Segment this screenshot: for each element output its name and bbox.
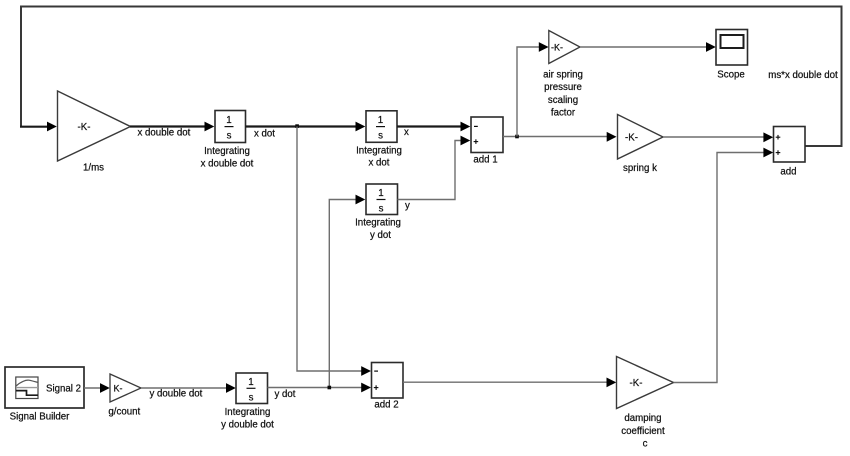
- wire y: integrator3 up to add 1 plus input: [398, 141, 462, 200]
- svg-text:add 1: add 1: [473, 155, 497, 166]
- svg-text:y: y: [405, 201, 410, 212]
- svg-text:Scope: Scope: [717, 70, 744, 81]
- svg-text:damping: damping: [624, 413, 661, 424]
- svg-text:add: add: [780, 167, 796, 178]
- wire Signal Builder to g/count: [84, 387, 101, 389]
- svg-text:factor: factor: [551, 108, 576, 119]
- svg-text:-K-: -K-: [625, 132, 638, 143]
- integrator Integrating y dot: [355, 184, 401, 241]
- svg-text:-K-: -K-: [630, 378, 643, 389]
- wire x: integrator2 to add 1 minus input: [397, 125, 461, 127]
- svg-text:ms*x double dot: ms*x double dot: [768, 70, 838, 81]
- integrator Integrating y double dot: [221, 373, 274, 431]
- svg-text:-K-: -K-: [551, 42, 563, 52]
- sum add: [774, 127, 806, 178]
- svg-text:Integrating: Integrating: [204, 146, 250, 157]
- svg-text:air spring: air spring: [543, 70, 583, 81]
- svg-text:y double dot: y double dot: [150, 388, 203, 399]
- gain g/count: [108, 374, 141, 418]
- wire feedback loop from add output to 1/ms input: [21, 7, 842, 147]
- svg-text:c: c: [643, 439, 648, 450]
- wire y dot: integrator to add 2 plus input: [268, 387, 363, 389]
- svg-text:Integrating: Integrating: [355, 218, 401, 229]
- scope Scope: [716, 30, 748, 81]
- svg-text:add 2: add 2: [374, 400, 398, 411]
- sum add 1: [471, 117, 503, 166]
- svg-text:x double dot: x double dot: [138, 128, 191, 139]
- svg-text:Signal 2: Signal 2: [46, 383, 81, 394]
- svg-text:1: 1: [248, 377, 253, 388]
- wire x dot branch down to add 2 minus input: [297, 127, 362, 372]
- svg-text:s: s: [378, 131, 383, 142]
- wire y double dot: g/count to Integrating y double dot: [141, 387, 227, 389]
- svg-text:x: x: [404, 127, 409, 138]
- gain 1/ms: [58, 91, 131, 174]
- arrowhead into 1/ms: [47, 122, 57, 132]
- svg-text:y dot: y dot: [275, 389, 296, 400]
- junction to air spring branch: [515, 135, 519, 139]
- svg-text:scaling: scaling: [548, 95, 578, 106]
- integrator Integrating x double dot: [201, 111, 254, 170]
- wire air spring gain to Scope: [580, 46, 707, 48]
- svg-text:Signal Builder: Signal Builder: [10, 411, 71, 422]
- svg-text:Integrating: Integrating: [225, 407, 271, 418]
- gain spring k: [618, 115, 664, 174]
- wire x double dot: 1/ms to Integrating x double dot: [130, 125, 205, 127]
- wire spring k to add input 1: [663, 136, 764, 138]
- gain air spring pressure scaling factor: [543, 31, 583, 119]
- svg-text:1/ms: 1/ms: [83, 163, 104, 174]
- wire y dot branch up into Integrating y dot: [329, 200, 356, 388]
- sum add 2: [372, 363, 404, 411]
- signal builder Signal Builder: [5, 367, 84, 422]
- wire feedback stub into 1/ms: [20, 126, 48, 128]
- svg-text:s: s: [227, 131, 232, 142]
- svg-text:coefficient: coefficient: [621, 426, 665, 437]
- svg-text:x dot: x dot: [254, 128, 275, 139]
- svg-text:1: 1: [378, 115, 383, 126]
- svg-text:s: s: [249, 392, 254, 403]
- junction y dot branch: [328, 386, 332, 390]
- svg-text:x dot: x dot: [368, 158, 389, 169]
- svg-text:Integrating: Integrating: [356, 145, 402, 156]
- svg-text:s: s: [379, 204, 384, 215]
- svg-text:y dot: y dot: [370, 230, 391, 241]
- svg-text:-K-: -K-: [78, 122, 91, 133]
- wire add1 output to spring k: [503, 136, 607, 138]
- svg-text:1: 1: [378, 188, 383, 199]
- wire branch up to air spring gain: [517, 47, 540, 137]
- wire damping gain up to add input 2: [674, 153, 765, 383]
- wire add 2 output to damping gain: [403, 381, 607, 383]
- svg-text:x double dot: x double dot: [201, 158, 254, 169]
- svg-text:1: 1: [226, 115, 231, 126]
- integrator Integrating x dot: [356, 111, 402, 169]
- svg-text:spring k: spring k: [623, 163, 657, 174]
- svg-text:K-: K-: [114, 383, 123, 393]
- svg-text:y double dot: y double dot: [221, 420, 274, 431]
- wire x dot: integrator1 to integrator2: [246, 125, 357, 127]
- junction x dot branch: [295, 124, 299, 128]
- svg-text:g/count: g/count: [108, 407, 140, 418]
- gain damping coefficient c: [617, 357, 674, 450]
- svg-text:pressure: pressure: [544, 82, 582, 93]
